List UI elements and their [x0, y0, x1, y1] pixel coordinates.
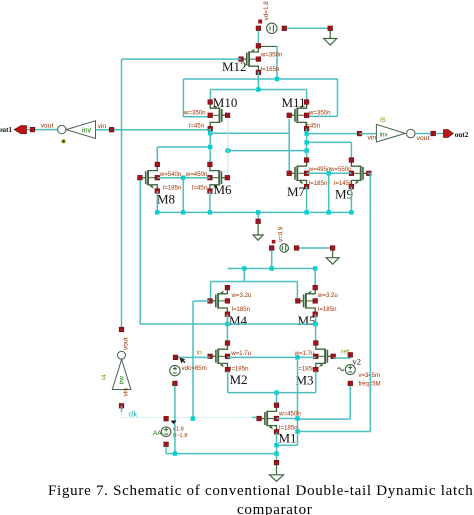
pin ground bottom [274, 460, 279, 465]
pin V2 bottom [348, 381, 353, 386]
pin gnd mid right [330, 246, 335, 251]
node dot clk riser bottom [191, 416, 195, 420]
wire rail A drop to M10 bulk [182, 79, 184, 117]
svg-text:inv: inv [119, 375, 126, 384]
junction out2 M9 link [304, 140, 308, 144]
pin I4 vout [119, 327, 124, 332]
pin right inverter input [357, 131, 362, 136]
wire rail B to M11 source [306, 90, 308, 102]
wire M2 bulk rail to M3 bulk [228, 356, 316, 358]
junction rail F V1 [270, 266, 274, 270]
pin arrow out1 [14, 126, 26, 134]
svg-text:M11: M11 [282, 95, 306, 110]
pin gnd top [328, 26, 333, 31]
pin AA top [164, 416, 169, 421]
wire faint cross couple to M10 gate and M6 gate [227, 119, 229, 151]
wire G gate feed M4 M5 [211, 281, 298, 283]
svg-text:0~1.8: 0~1.8 [173, 433, 188, 439]
wire M1 source column [276, 433, 278, 461]
svg-text:l=45n: l=45n [305, 122, 320, 129]
cursor arrow [179, 358, 185, 364]
wire M8 source to rail E [156, 191, 158, 212]
wire I4 input stub [121, 406, 123, 412]
svg-text:vout: vout [417, 135, 430, 142]
svg-text:clk: clk [129, 412, 138, 419]
svg-text:I5: I5 [380, 117, 386, 124]
wire bulk net riser [297, 357, 299, 445]
wire faint clk line [121, 412, 123, 418]
marker cursor AA [171, 421, 177, 424]
wire M12 drain to rail B [257, 72, 259, 90]
wire rail A vdd [183, 78, 337, 80]
svg-text:v=0.9: v=0.9 [278, 226, 285, 242]
voltage source V1 (vdc 0.9) [280, 244, 289, 253]
wire bulk drop left to rail E [182, 178, 184, 213]
svg-text:l=185n: l=185n [163, 185, 181, 192]
wire rail B to M10 source [209, 90, 211, 102]
wire left inverter input [96, 129, 112, 131]
ground top right [324, 31, 337, 46]
wire G to M5 gate [296, 282, 298, 299]
svg-text:l=185n: l=185n [297, 365, 315, 372]
wire M2 source down [227, 371, 229, 393]
junction rail F clk drop [242, 266, 246, 270]
ground bottom [270, 465, 284, 482]
wire V1 minus to rail F [271, 250, 273, 268]
svg-text:w=3.2u: w=3.2u [231, 292, 252, 299]
voltage source V0 (vdc 1.8) [267, 23, 277, 33]
wire V1 to ground right [299, 247, 333, 249]
svg-text:M4: M4 [229, 313, 248, 328]
svg-text:l=45n: l=45n [189, 122, 204, 129]
wire M5 source to M3 drain [315, 314, 317, 344]
wire rail E to ground pin [257, 212, 259, 219]
inverter I4 triangle [112, 359, 131, 389]
junction bulk net [295, 355, 299, 359]
caption line 2 [237, 503, 313, 515]
wire F out2 to right inverter [307, 133, 360, 135]
junction rail E bulk left [181, 210, 185, 214]
junction out1 / M8 link [208, 145, 212, 149]
junction M1 source 2 [274, 451, 278, 455]
wire I common source [228, 392, 316, 394]
svg-text:w=550n: w=550n [329, 166, 352, 173]
junction wire I M1 [274, 390, 278, 394]
wire M12 gate to clkb [122, 58, 242, 60]
wire M1 bulk link [277, 418, 298, 420]
wire clk riser [192, 301, 194, 417]
wire bulk rail right [307, 172, 352, 174]
wire M12 source bulk link [258, 45, 277, 47]
transistor M9 [351, 160, 368, 187]
junction bulk rail left drop [181, 176, 185, 180]
junction rail E M9 [349, 210, 353, 214]
pin left inverter input [109, 127, 114, 132]
caption line 1 [48, 484, 473, 499]
pin out1 wire [30, 127, 35, 132]
wire C out2 cross couple [228, 150, 307, 152]
inverter I4 bubble [118, 351, 126, 359]
wire M1 gate stub [252, 416, 259, 418]
junction wire H M4 [225, 322, 229, 326]
wire clkb vertical [121, 59, 123, 329]
junction rail E M8 [155, 210, 159, 214]
transistor M5 (PMOS) [298, 288, 315, 315]
wire bulk rail left [157, 177, 210, 179]
svg-text:w=3.2u: w=3.2u [317, 292, 338, 299]
wire vdd source to ground [287, 27, 331, 29]
inverter left triangle [66, 121, 95, 139]
svg-text:M7: M7 [287, 184, 306, 199]
svg-text:vin: vin [368, 135, 377, 142]
svg-text:l=185n: l=185n [309, 180, 327, 187]
junction rail F end [313, 266, 317, 270]
svg-text:w=350n: w=350n [183, 110, 206, 117]
pin ground mid [256, 219, 261, 224]
svg-text:M2: M2 [230, 372, 248, 387]
svg-text:w=450n: w=450n [185, 171, 208, 178]
svg-text:vd=1.8: vd=1.8 [263, 1, 270, 21]
inverter I? bubble left [58, 125, 66, 133]
wire M9 gate vertical [369, 173, 371, 431]
svg-text:v=345m: v=345m [359, 373, 381, 379]
svg-text:M1: M1 [279, 431, 297, 446]
wire rail F [228, 268, 316, 270]
transistor M2 [210, 343, 227, 370]
wire out1 node to left inverter [112, 129, 211, 131]
svg-text:l=165n: l=165n [261, 66, 279, 73]
wire vdcm bottom down [174, 386, 176, 454]
svg-text:w=1.7u: w=1.7u [230, 350, 251, 357]
transistor M8 [140, 164, 157, 191]
wire H tail node [140, 323, 315, 325]
svg-text:vout: vout [41, 123, 54, 130]
svg-text:v1.8: v1.8 [173, 426, 184, 432]
pin AA bottom [164, 442, 169, 447]
wire out1 column [209, 129, 211, 164]
wire I4 output stub [121, 328, 123, 330]
wire E out1 cross couple [210, 132, 289, 134]
wire bulk drop right to rail E [328, 173, 330, 212]
wire G to M4 gate [210, 282, 212, 299]
pin arrow out2 [444, 130, 454, 138]
svg-text:w=540n: w=540n [159, 171, 182, 178]
junction bulk riser V2 [295, 429, 299, 433]
wire bulk riser bottom link [277, 444, 298, 446]
pin V1 plus [294, 246, 299, 251]
wire cross couple to M11 gate and M7 gate [288, 133, 290, 173]
pin I4 vin [119, 404, 124, 409]
transistor M11 (PMOS latch right) [289, 102, 306, 129]
junction rail E M7 [304, 210, 308, 214]
svg-text:inv: inv [82, 128, 91, 135]
svg-text:in: in [197, 350, 203, 357]
pin V0 plus [282, 26, 287, 31]
transistor M6 [210, 164, 227, 191]
node dot cross couple left [225, 148, 230, 153]
wire rail F to M5 drain [314, 269, 316, 286]
junction bulk rail right drop [327, 171, 331, 175]
wire M6 source to rail E [209, 191, 211, 212]
svg-text:I4: I4 [101, 374, 108, 380]
junction ground collect vdcm [173, 451, 177, 455]
wire M9 source to rail E [350, 187, 352, 213]
ground middle [253, 224, 263, 241]
junction rail E ground stub [256, 210, 260, 214]
svg-text:w=350n: w=350n [308, 110, 331, 117]
svg-text:M9: M9 [335, 187, 353, 202]
svg-text:out2: out2 [455, 131, 469, 139]
transistor M3 [316, 343, 333, 370]
svg-text:vin: vin [98, 123, 107, 130]
pin vdcm bottom [173, 381, 178, 386]
wire D M8 drain link [157, 146, 210, 148]
voltage source VDCM [170, 365, 180, 375]
svg-text:M12: M12 [222, 59, 247, 74]
wire M1 drain riser [276, 393, 278, 405]
svg-text:vout: vout [123, 337, 130, 350]
junction M1 source 1 [274, 443, 278, 447]
voltage source AA clock [161, 427, 171, 437]
inverter I5 bubble [407, 129, 416, 138]
junction bulk riser M1 [295, 416, 299, 420]
junction rail E bulk right [327, 210, 331, 214]
junction rail E M6 [208, 210, 212, 214]
svg-text:inv: inv [380, 132, 389, 139]
wire ref M3 gate to V2 [333, 357, 350, 359]
wire rail E ground rail [157, 211, 351, 213]
svg-text:M5: M5 [298, 313, 316, 328]
transistor M12 (PMOS tail) [241, 46, 258, 73]
junction rail A / M12 bulk link [275, 77, 279, 81]
wire V2 return [298, 418, 351, 420]
junction out2 cross couple [304, 148, 308, 152]
junction out1 inverter wire [208, 131, 212, 135]
ground below V1 [326, 250, 339, 264]
svg-text:l=185n: l=185n [318, 306, 336, 313]
svg-text:out1: out1 [0, 126, 12, 134]
wire M4 source to wire H [226, 314, 228, 343]
wire V0 to M12 source [257, 31, 259, 45]
inverter I5 triangle [376, 124, 405, 142]
voltage source V2 sine [345, 365, 355, 375]
svg-text:l=185n: l=185n [232, 306, 250, 313]
wire in signal vdcm to M2 gate [176, 356, 210, 358]
pin V1 minus [269, 246, 274, 251]
svg-text:AA: AA [153, 430, 162, 437]
svg-text:w=350n: w=350n [260, 52, 283, 59]
wire ground collect [166, 453, 276, 455]
wire right inverter input stub [360, 133, 378, 135]
junction wire H M5 [313, 322, 317, 326]
wire M9 gate return [298, 431, 371, 433]
svg-text:vin: vin [123, 388, 130, 397]
svg-text:v2: v2 [353, 357, 362, 367]
wire AA bottom to ground collect [165, 447, 167, 454]
wire rail B latch sources [210, 89, 306, 91]
wire M4 gate clk link left [193, 300, 210, 302]
svg-text:l=45n: l=45n [192, 185, 207, 192]
wire rail A drop to M11 bulk [337, 79, 339, 116]
transistor M7 [289, 160, 306, 187]
pin I5 output [431, 131, 436, 136]
wire out1 pin to buffer [27, 129, 58, 131]
pin V2 top [348, 353, 353, 358]
wire rail F drop to wire G [243, 269, 245, 282]
wire M8 gate drop to tail node [139, 180, 141, 324]
pin V0 minus [256, 26, 261, 31]
wire M3 source down [315, 371, 317, 393]
wire I5 output [415, 133, 443, 135]
transistor M10 (PMOS latch left) [210, 102, 227, 129]
wire out2 column [306, 129, 308, 160]
junction out2 inverter wire [304, 131, 308, 135]
node dot small olive [61, 139, 65, 143]
junction rail B M12 drain [256, 87, 260, 91]
svg-text:M10: M10 [213, 95, 238, 110]
pin vdcm top [173, 355, 178, 360]
transistor M4 (PMOS) [210, 288, 227, 315]
transistor M1 [259, 405, 276, 432]
svg-text:M6: M6 [214, 182, 233, 197]
svg-text:M8: M8 [157, 192, 175, 207]
wire M9 drain link [307, 141, 352, 143]
svg-text:vdc=85m: vdc=85m [182, 365, 207, 372]
wire M7 source to rail E [306, 187, 308, 213]
